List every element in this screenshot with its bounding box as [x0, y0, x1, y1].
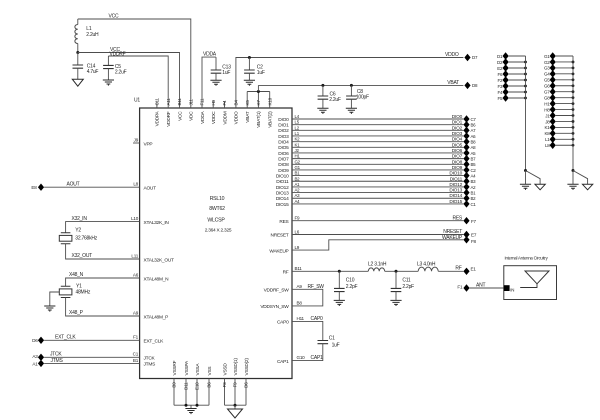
svg-text:DIO8: DIO8 — [278, 162, 289, 168]
svg-text:JTCK: JTCK — [144, 356, 156, 362]
svg-text:B8: B8 — [471, 140, 477, 145]
svg-text:L2 3.1nH: L2 3.1nH — [368, 262, 387, 268]
terminal A3 JTCK — [32, 354, 44, 361]
wire VCC mid to pin B11 — [78, 47, 180, 108]
terminal D7 VDDO — [464, 54, 478, 61]
terminal C7 DIO0 — [463, 115, 476, 122]
svg-text:L9: L9 — [295, 245, 300, 250]
svg-text:D1: D1 — [497, 54, 503, 59]
capacitor C5 — [103, 56, 127, 80]
wire RES pin F9 — [279, 215, 463, 225]
wire L2 to L3 — [385, 270, 419, 272]
wire X48_N — [66, 272, 140, 286]
svg-text:RF: RF — [283, 270, 289, 276]
pin D6 VSSD(2) — [244, 358, 250, 406]
svg-text:B6: B6 — [207, 382, 212, 388]
svg-text:X32_IN: X32_IN — [72, 216, 88, 222]
inductor L2 — [368, 262, 387, 272]
wire VPP stub — [133, 142, 140, 144]
terminal J8 ladder2 — [545, 118, 574, 125]
pin A6 XTAL48M_N — [133, 272, 169, 282]
wire ladder1 rail — [525, 56, 527, 171]
ground for C11 — [390, 300, 401, 306]
svg-text:VDDA: VDDA — [203, 52, 217, 58]
terminal C1 DIO15 — [463, 200, 476, 207]
svg-text:K1: K1 — [544, 125, 550, 130]
terminal G4 ladder2 — [544, 70, 574, 77]
ground for C8 — [346, 108, 357, 114]
terminal C2 DIO9 — [463, 166, 476, 173]
svg-text:C7: C7 — [471, 117, 477, 122]
svg-text:1uF: 1uF — [257, 70, 265, 76]
svg-text:B2: B2 — [295, 176, 301, 181]
pin B9 VSSRF — [172, 360, 178, 405]
svg-text:L1: L1 — [86, 26, 92, 32]
terminal G6 ladder2 — [544, 82, 574, 89]
capacitor C14 — [73, 53, 99, 80]
svg-text:A9: A9 — [133, 310, 139, 315]
svg-text:A6: A6 — [471, 134, 477, 139]
pin F9 VSSD(1) — [233, 358, 239, 406]
svg-text:Y2: Y2 — [75, 227, 81, 233]
wire CAP1 pin G10 — [277, 344, 323, 365]
svg-text:B5: B5 — [471, 162, 477, 167]
terminal F8 WAKEUP — [463, 236, 476, 244]
svg-text:DIO10: DIO10 — [449, 171, 462, 177]
svg-text:G1: G1 — [544, 54, 550, 59]
pin L8 AOUT — [133, 182, 156, 192]
ground for ladder1 bar — [520, 171, 531, 190]
wire WAKEUP pin L9 — [269, 235, 463, 254]
svg-text:DIO6: DIO6 — [278, 151, 289, 157]
pin L4 DIO0 wire — [278, 114, 463, 123]
svg-text:NRESET: NRESET — [271, 233, 289, 239]
svg-text:L11: L11 — [131, 253, 138, 258]
svg-text:B2: B2 — [471, 196, 477, 201]
terminal E8 AOUT — [31, 184, 44, 191]
pin L11 XTAL32K_OUT — [131, 253, 174, 263]
svg-text:DIO0: DIO0 — [452, 114, 463, 120]
crystal Y1 48MHz — [59, 284, 91, 298]
pin L1 DIO3 wire — [278, 131, 463, 140]
svg-text:DIO7: DIO7 — [452, 154, 463, 160]
svg-text:VCC: VCC — [109, 14, 119, 20]
wire AOUT — [44, 182, 140, 188]
svg-text:A5: A5 — [471, 151, 477, 156]
terminal A4 DIO10 — [463, 172, 476, 179]
svg-text:B9: B9 — [172, 382, 177, 388]
crystal Y2 32.768kHz — [59, 227, 97, 243]
terminal A1 JTMS — [32, 360, 44, 367]
svg-text:H11: H11 — [297, 316, 305, 321]
svg-text:XTAL48M_N: XTAL48M_N — [144, 276, 170, 282]
svg-text:DIO12: DIO12 — [449, 182, 462, 188]
node RF C11 junction — [395, 270, 398, 273]
pin B4 VDDO — [234, 100, 240, 125]
pin A11 VDDRF — [166, 98, 172, 127]
svg-text:B8: B8 — [297, 300, 303, 305]
svg-text:X48_N: X48_N — [69, 272, 84, 278]
terminal J1 ladder2 — [545, 112, 574, 119]
pin L2 DIO2 wire — [278, 125, 463, 134]
terminal B8 DIO4 — [463, 138, 476, 145]
svg-text:C11: C11 — [155, 97, 160, 105]
svg-text:C1: C1 — [133, 352, 139, 357]
svg-text:8WT62: 8WT62 — [209, 206, 225, 212]
svg-text:DIO12: DIO12 — [276, 185, 289, 191]
ground for VSSD group — [228, 405, 243, 418]
terminal G8 ladder2 — [544, 94, 574, 101]
svg-text:X48_P: X48_P — [69, 310, 84, 316]
ground for VSS group — [185, 405, 196, 414]
svg-text:VDDRF: VDDRF — [166, 111, 172, 127]
inductor L1 — [75, 19, 99, 53]
svg-text:DIO1: DIO1 — [452, 120, 463, 126]
terminal A5 DIO6 — [463, 149, 476, 156]
svg-text:2.2pF: 2.2pF — [346, 284, 358, 290]
svg-text:DIO5: DIO5 — [278, 145, 289, 151]
svg-text:J9: J9 — [134, 137, 139, 142]
svg-text:WAKEUP: WAKEUP — [442, 235, 463, 241]
ground for C2 — [244, 80, 255, 86]
capacitor C13 — [211, 57, 231, 80]
pin L5 DIO1 wire — [278, 120, 463, 129]
svg-text:L10: L10 — [131, 216, 139, 221]
svg-text:A2: A2 — [295, 188, 301, 193]
svg-text:VDDO: VDDO — [445, 52, 459, 58]
svg-text:DIO3: DIO3 — [278, 134, 289, 140]
svg-text:G4: G4 — [544, 72, 550, 77]
terminal A8 DIO5 — [463, 144, 476, 151]
pin A2 DIO13 wire — [276, 188, 464, 197]
terminal A6 DIO3 — [463, 132, 476, 139]
svg-text:A1: A1 — [295, 182, 301, 187]
pin B11 VCC — [177, 98, 183, 121]
svg-text:DIO1: DIO1 — [278, 123, 289, 129]
svg-text:100pF: 100pF — [356, 94, 369, 100]
svg-text:VDDM: VDDM — [222, 111, 228, 124]
wire VDDRF to pin A11 — [108, 51, 168, 108]
pin F3 VSSD — [222, 363, 228, 406]
svg-text:F11: F11 — [200, 98, 205, 106]
svg-text:B11: B11 — [177, 98, 182, 106]
node VCC junction at L1 bottom — [76, 51, 79, 54]
svg-text:G5: G5 — [544, 78, 550, 83]
wire ladder2 rail — [572, 56, 574, 171]
terminal H8 ladder2 — [544, 106, 574, 113]
wire X48_P — [66, 298, 140, 317]
svg-text:XTAL32K_OUT: XTAL32K_OUT — [144, 257, 175, 263]
terminal D1 ladder1 — [497, 52, 525, 59]
svg-text:C1: C1 — [329, 336, 335, 342]
svg-text:VSSA: VSSA — [195, 363, 201, 376]
svg-text:DIO8: DIO8 — [452, 159, 463, 165]
svg-text:RSL10: RSL10 — [210, 196, 225, 202]
svg-text:F1: F1 — [457, 285, 463, 290]
svg-text:E8: E8 — [31, 185, 37, 190]
svg-text:L8: L8 — [133, 182, 138, 187]
terminal G3 ladder2 — [544, 64, 574, 71]
svg-text:G1: G1 — [295, 165, 301, 170]
pin F1 EXT_CLK — [133, 335, 164, 345]
terminal D6 EXT_CLK — [32, 337, 44, 344]
wire JTMS — [44, 358, 140, 364]
pin J11 VDC — [188, 98, 194, 120]
svg-text:K5: K5 — [245, 100, 250, 106]
terminal E2 ladder1 — [497, 64, 527, 71]
svg-text:F2: F2 — [498, 78, 503, 83]
svg-text:B1: B1 — [133, 358, 139, 363]
svg-text:VDDRF_SW: VDDRF_SW — [264, 288, 290, 294]
svg-text:DIO5: DIO5 — [452, 142, 463, 148]
terminal K8 ladder2 — [544, 130, 574, 137]
svg-text:A7: A7 — [471, 128, 477, 133]
capacitor C11 — [391, 271, 414, 300]
svg-text:G2: G2 — [295, 159, 301, 164]
svg-text:J11: J11 — [188, 98, 193, 105]
svg-text:B6: B6 — [471, 123, 477, 128]
pin C1 JTCK — [133, 352, 156, 362]
pin E10 VSSA — [195, 363, 201, 406]
terminal G5 ladder2 — [544, 76, 574, 83]
svg-text:F5: F5 — [498, 96, 503, 101]
capacitor C10 — [334, 271, 358, 300]
svg-text:DIO13: DIO13 — [276, 190, 289, 196]
svg-text:VBAT(1): VBAT(1) — [256, 111, 262, 128]
svg-text:VSSRF: VSSRF — [172, 360, 178, 375]
svg-text:XTAL48M_P: XTAL48M_P — [144, 314, 169, 320]
terminal G7 ladder2 — [544, 88, 574, 95]
svg-text:DIO15: DIO15 — [449, 199, 462, 205]
svg-text:DIO11: DIO11 — [276, 179, 289, 185]
pin K5 VBAT — [245, 100, 251, 123]
svg-text:C1: C1 — [471, 202, 477, 207]
svg-text:VDDA: VDDA — [200, 110, 206, 123]
wire NRESET pin L6 — [271, 229, 464, 239]
svg-text:VDDSYN_SW: VDDSYN_SW — [260, 304, 289, 310]
pin A3 DIO14 wire — [276, 193, 464, 202]
svg-text:H1: H1 — [544, 101, 550, 106]
svg-text:A4: A4 — [471, 174, 477, 179]
svg-text:DIO2: DIO2 — [278, 128, 289, 134]
svg-text:DIO9: DIO9 — [278, 168, 289, 174]
svg-text:EXT_CLK: EXT_CLK — [144, 339, 165, 345]
svg-text:DIO14: DIO14 — [449, 193, 462, 199]
svg-text:B1: B1 — [471, 190, 477, 195]
svg-text:B7: B7 — [471, 157, 477, 162]
pin A9 XTAL48M_P — [133, 310, 168, 320]
wire EXT_CLK — [44, 335, 140, 341]
pin H1 DIO7 wire — [278, 154, 463, 163]
node ladder2 bottom junction — [572, 169, 575, 172]
svg-text:ANT: ANT — [476, 282, 485, 288]
svg-text:D6: D6 — [244, 382, 249, 388]
pin J9 VPP — [134, 137, 153, 147]
svg-text:G8: G8 — [544, 95, 550, 100]
svg-text:C10: C10 — [346, 277, 355, 283]
pin L10 XTAL32K_IN — [131, 216, 169, 226]
svg-text:A9: A9 — [297, 284, 303, 289]
svg-text:D8: D8 — [472, 83, 478, 88]
capacitor C1 — [318, 336, 340, 349]
svg-text:F9: F9 — [233, 382, 238, 388]
terminal L1 ladder2 — [545, 136, 574, 143]
pin K1 DIO5 wire — [278, 142, 463, 151]
svg-text:B4: B4 — [234, 100, 239, 106]
wire VDDA from pin F11 — [202, 52, 217, 108]
ground for Y1 — [44, 306, 55, 312]
svg-text:H9: H9 — [211, 99, 216, 105]
svg-text:VBAT: VBAT — [447, 80, 459, 86]
terminal B3 DIO11 — [463, 178, 476, 185]
svg-text:AOUT: AOUT — [67, 182, 80, 188]
pin C11 VDDPA — [155, 97, 161, 126]
wire VBAT rail K5 K7 K10 — [247, 85, 270, 108]
svg-text:JTCK: JTCK — [50, 352, 62, 358]
terminal D8 VBAT — [464, 82, 478, 89]
svg-text:G3: G3 — [544, 66, 550, 71]
pin B2 DIO11 wire — [276, 176, 463, 185]
svg-text:F3: F3 — [222, 382, 227, 388]
svg-text:DIO15: DIO15 — [276, 202, 289, 208]
svg-text:VDC: VDC — [189, 111, 195, 121]
wire VBAT to terminal D8 — [258, 80, 463, 86]
terminal F5 ladder1 — [498, 94, 527, 101]
svg-text:VDDC: VDDC — [211, 111, 217, 124]
terminal E1 RF — [463, 267, 476, 275]
pin K7 VBAT(1) — [256, 100, 262, 128]
svg-text:2.2uF: 2.2uF — [115, 69, 127, 75]
terminal B5 DIO8 — [463, 161, 476, 168]
svg-text:A3: A3 — [32, 354, 38, 359]
svg-text:RF: RF — [455, 266, 461, 272]
svg-text:AOUT: AOUT — [144, 186, 157, 192]
svg-text:DIO2: DIO2 — [452, 125, 463, 131]
svg-text:D2: D2 — [497, 60, 503, 65]
pin F11 VDDA — [200, 98, 206, 124]
svg-text:G7: G7 — [544, 90, 550, 95]
wire CAP0 pin H11 — [277, 316, 323, 341]
svg-text:DIO3: DIO3 — [452, 131, 463, 137]
svg-text:VSSD(1): VSSD(1) — [233, 358, 239, 376]
svg-text:G6: G6 — [544, 84, 550, 89]
svg-text:48MHz: 48MHz — [76, 290, 91, 296]
pin A1 DIO12 wire — [276, 182, 464, 191]
pin B1 JTMS — [133, 358, 155, 368]
svg-text:A1: A1 — [32, 361, 38, 366]
terminal B6 DIO1 — [463, 121, 476, 128]
svg-text:F9: F9 — [295, 216, 301, 221]
ground for ladder2 bar — [567, 171, 578, 190]
svg-text:K7: K7 — [256, 100, 261, 106]
svg-text:F1: F1 — [133, 335, 139, 340]
svg-text:DIO13: DIO13 — [449, 188, 462, 194]
capacitor C8 — [346, 84, 369, 108]
wire L3 to RF terminal — [438, 266, 463, 272]
pin K2 DIO4 wire — [278, 137, 463, 146]
svg-text:CAP1: CAP1 — [311, 355, 324, 361]
svg-text:DIO9: DIO9 — [452, 165, 463, 171]
svg-text:CAP1: CAP1 — [277, 359, 289, 365]
svg-text:L8: L8 — [545, 143, 550, 148]
svg-text:A11: A11 — [166, 98, 171, 106]
svg-text:RF_SW: RF_SW — [308, 284, 325, 290]
wire Y1 case ground lead — [50, 292, 60, 306]
terminal B7 DIO7 — [463, 155, 476, 162]
svg-text:E10: E10 — [195, 382, 200, 390]
terminal F4 ladder1 — [498, 88, 527, 95]
svg-text:DIO14: DIO14 — [276, 196, 289, 202]
svg-text:DIO7: DIO7 — [278, 157, 289, 163]
svg-text:D11: D11 — [184, 382, 189, 390]
svg-text:L3 4.0nH: L3 4.0nH — [417, 262, 436, 268]
svg-text:U1: U1 — [134, 98, 140, 104]
svg-text:F7: F7 — [471, 219, 477, 224]
svg-text:DIO0: DIO0 — [278, 117, 289, 123]
pin G2 DIO8 wire — [278, 159, 463, 168]
svg-text:JTMS: JTMS — [51, 358, 64, 364]
svg-text:G2: G2 — [544, 60, 550, 65]
svg-text:VCC: VCC — [177, 111, 183, 121]
terminal A2 DIO12 — [463, 183, 476, 190]
pin H9 VDDC — [211, 99, 217, 124]
wire JTCK — [44, 352, 140, 358]
ground for C13 — [210, 80, 221, 86]
svg-text:D6: D6 — [32, 338, 38, 343]
wire VDDO from pin B4 to terminal D7 — [236, 52, 464, 108]
ground for C10 — [334, 300, 345, 306]
terminal F3 ladder1 — [498, 82, 527, 89]
svg-text:E2: E2 — [497, 66, 503, 71]
svg-text:J1: J1 — [545, 113, 550, 118]
svg-text:IN: IN — [510, 287, 514, 292]
svg-text:RES: RES — [452, 215, 462, 221]
ground for C14 — [72, 79, 83, 86]
svg-text:JTMS: JTMS — [144, 362, 156, 368]
terminal F6 ladder1 — [498, 70, 527, 77]
svg-text:K10: K10 — [267, 97, 272, 105]
svg-text:VBAT: VBAT — [245, 111, 251, 122]
svg-text:B3: B3 — [471, 179, 477, 184]
wire RF_SW tie VDDRF_SW A9 to VDDSYN_SW B8 — [260, 284, 324, 310]
antenna module internal antenna circuitry — [504, 256, 557, 300]
terminal A7 DIO2 — [463, 127, 476, 134]
svg-text:K1: K1 — [295, 142, 301, 147]
svg-text:2.2uH: 2.2uH — [86, 32, 99, 38]
terminal E7 NRESET — [463, 231, 476, 238]
svg-text:H8: H8 — [544, 107, 550, 112]
inductor L3 — [417, 262, 438, 272]
terminal F2 ladder1 — [498, 76, 527, 83]
pin B1 DIO10 wire — [276, 171, 464, 180]
svg-text:C11: C11 — [402, 277, 411, 283]
terminal D2 ladder1 — [497, 58, 527, 65]
svg-text:L6: L6 — [295, 229, 300, 234]
svg-text:DIO4: DIO4 — [452, 137, 463, 143]
pin J2 DIO6 wire — [278, 148, 463, 157]
terminal B1 DIO13 — [463, 189, 476, 196]
svg-text:VSS: VSS — [207, 367, 213, 376]
svg-text:F4: F4 — [222, 100, 227, 106]
svg-text:VDDRF: VDDRF — [110, 51, 126, 57]
svg-text:E7: E7 — [471, 233, 477, 238]
svg-text:E1: E1 — [471, 267, 477, 272]
svg-text:32.768kHz: 32.768kHz — [75, 235, 97, 241]
pin D11 VSSPA — [184, 360, 190, 405]
svg-text:K2: K2 — [295, 137, 301, 142]
svg-text:A6: A6 — [133, 272, 139, 277]
terminal B2 DIO14 — [463, 195, 476, 202]
